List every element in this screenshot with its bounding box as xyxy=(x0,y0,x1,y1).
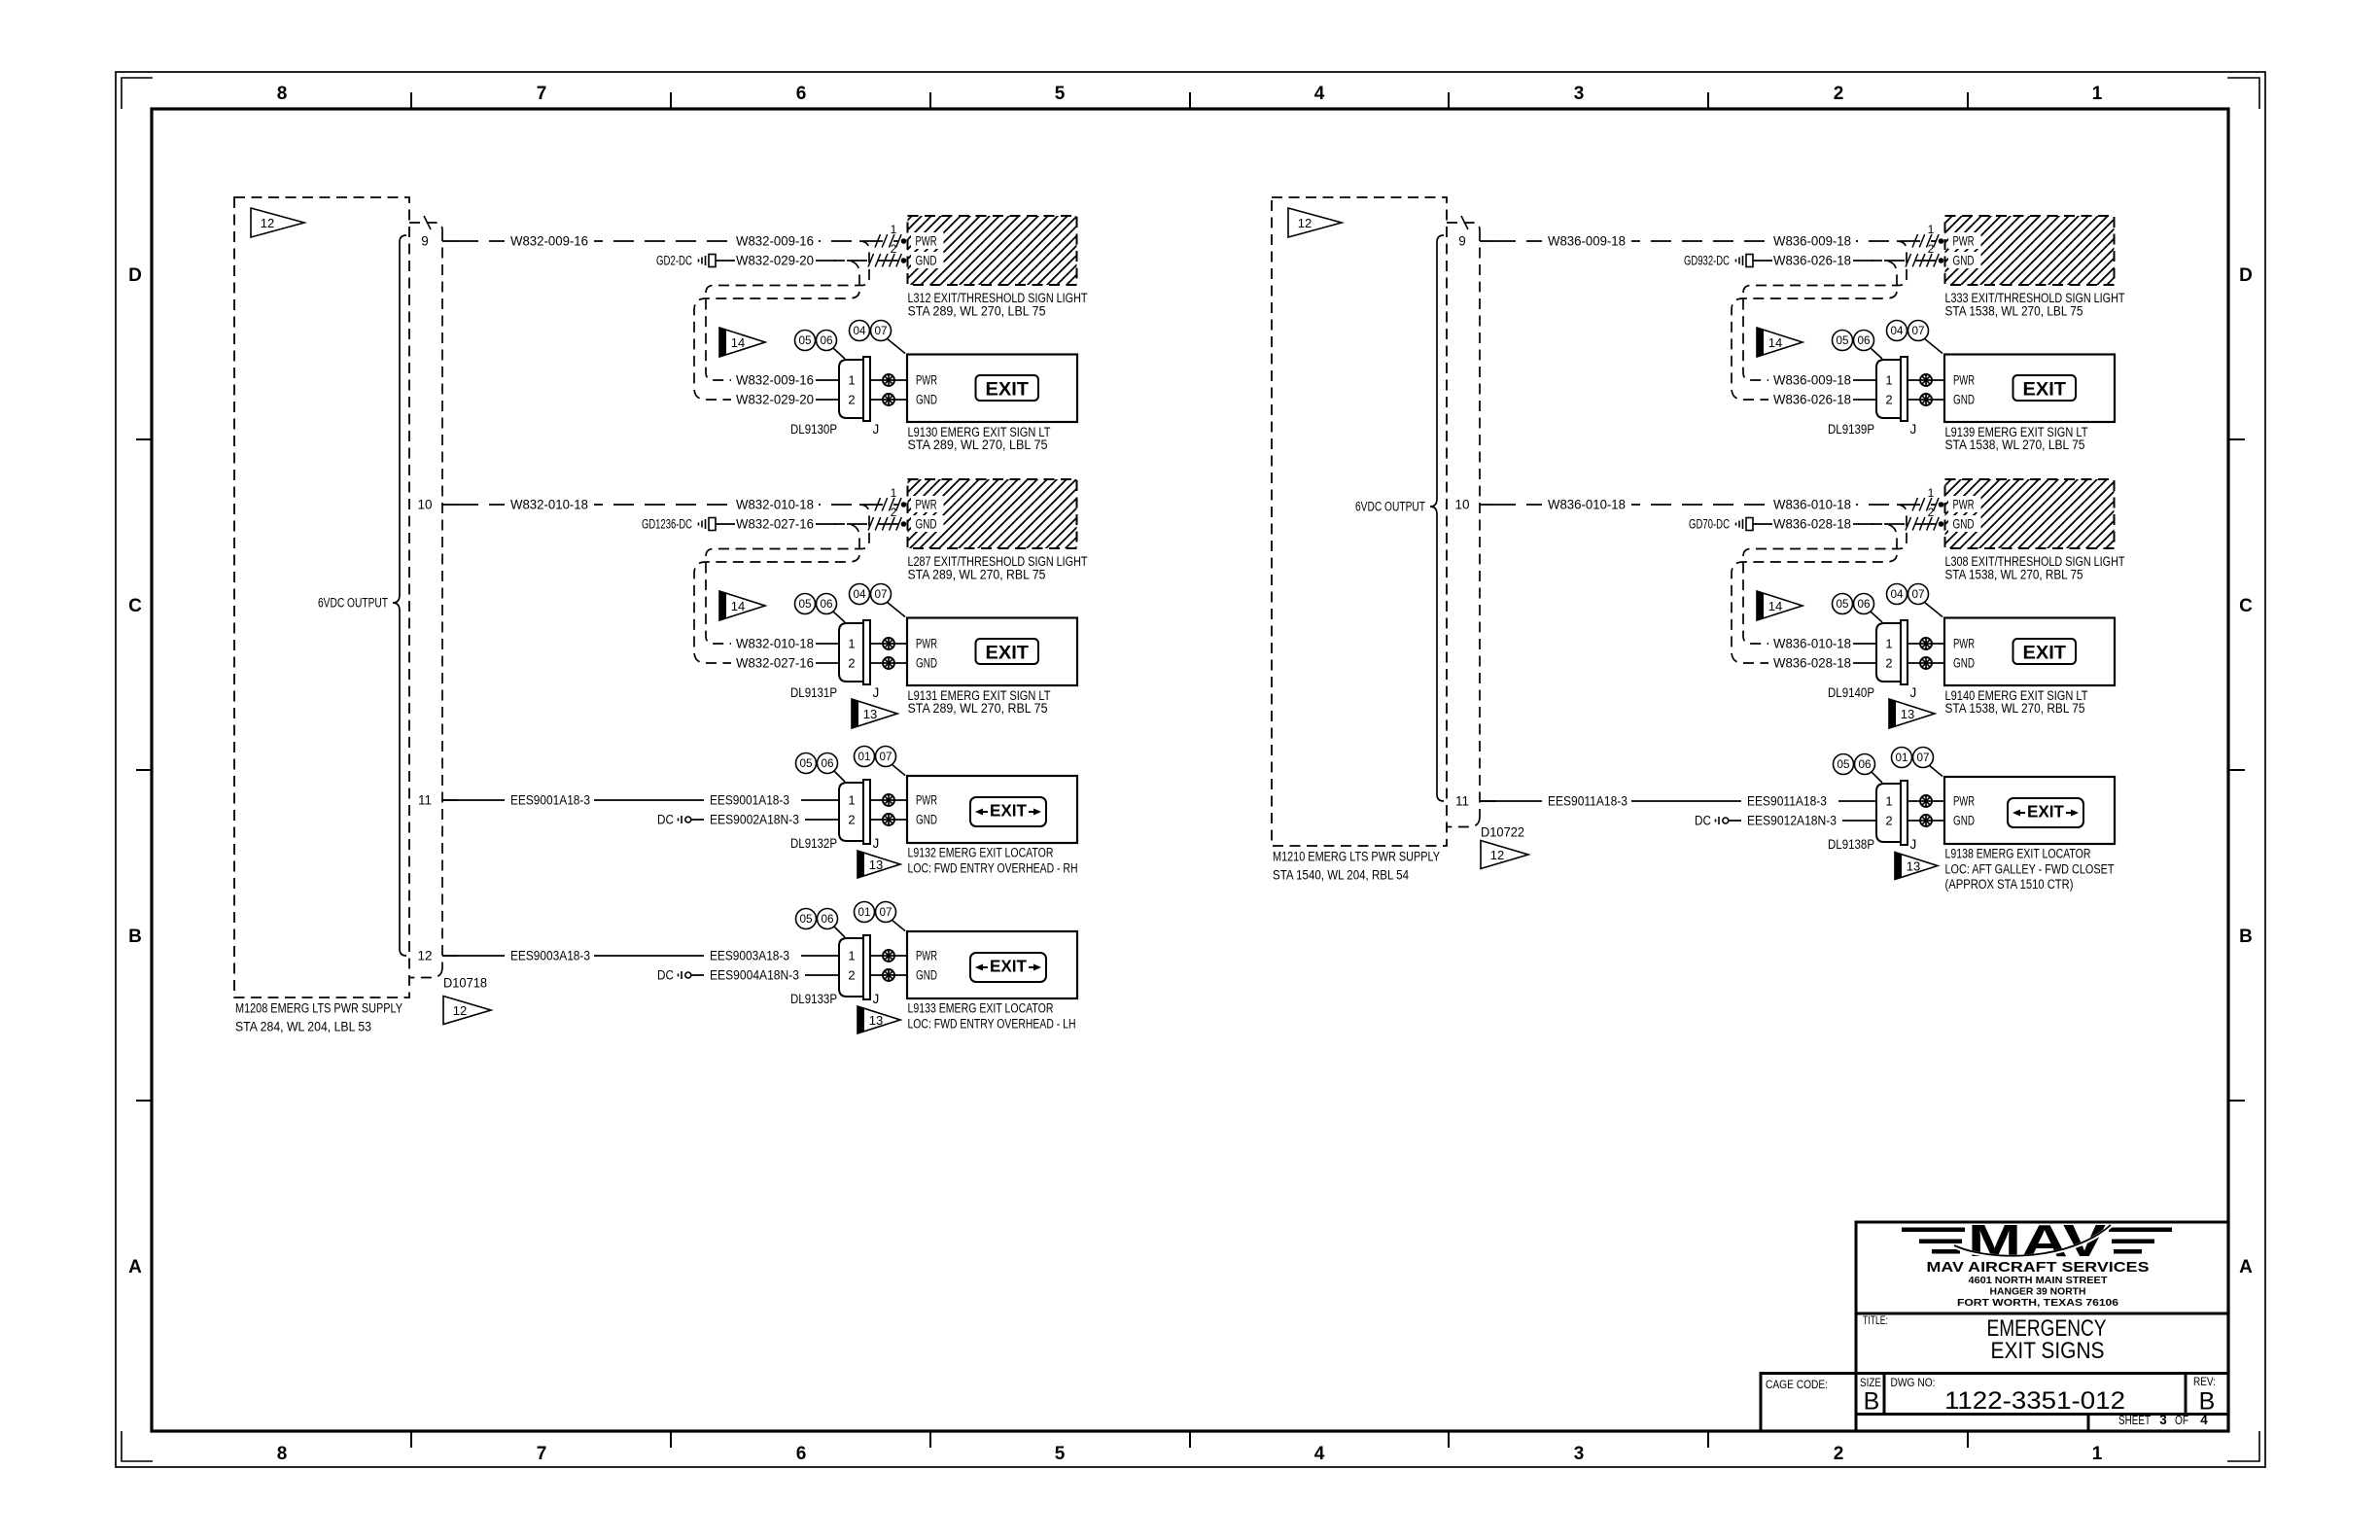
svg-text:1: 1 xyxy=(848,793,855,808)
wire W836-009-18 into plug pin 1 xyxy=(1768,371,1856,389)
svg-text:14: 14 xyxy=(731,599,745,613)
svg-text:W836-026-18: W836-026-18 xyxy=(1773,393,1851,407)
svg-text:STA 1538, WL 270, LBL 75: STA 1538, WL 270, LBL 75 xyxy=(1945,437,2085,452)
svg-text:05: 05 xyxy=(799,599,812,611)
svg-text:EXIT: EXIT xyxy=(986,380,1030,401)
svg-text:W832-009-16: W832-009-16 xyxy=(510,234,588,249)
L9140 EMERG EXIT SIGN LT box xyxy=(1944,618,2115,686)
svg-text:14: 14 xyxy=(1768,599,1782,613)
svg-text:J: J xyxy=(873,992,880,1006)
flag note 14 xyxy=(1757,328,1802,357)
svg-text:W832-010-18: W832-010-18 xyxy=(736,498,814,512)
svg-text:05: 05 xyxy=(1837,599,1849,611)
svg-text:6: 6 xyxy=(796,1444,807,1464)
svg-text:GND: GND xyxy=(916,656,937,671)
svg-text:STA 289, WL 270, LBL 75: STA 289, WL 270, LBL 75 xyxy=(908,437,1048,452)
svg-text:EES9001A18-3: EES9001A18-3 xyxy=(710,793,789,808)
circled callouts 05 06 04 07 xyxy=(833,348,845,359)
svg-text:1: 1 xyxy=(848,637,855,651)
svg-text:DWG NO:: DWG NO: xyxy=(1891,1376,1936,1389)
svg-text:06: 06 xyxy=(1858,335,1871,347)
circled callouts 05 06 04 07 xyxy=(1871,612,1882,622)
svg-text:05: 05 xyxy=(1837,335,1849,347)
wire W832-009-16 (pin to threshold light) xyxy=(458,240,898,242)
svg-text:4: 4 xyxy=(2200,1413,2208,1427)
pin 10 xyxy=(442,504,458,506)
wire bundle marks pins 1,2 xyxy=(1912,234,1939,248)
flag note 12 (inside supply) xyxy=(1288,208,1342,237)
L9130 EMERG EXIT SIGN LT box xyxy=(907,355,1077,423)
svg-text:05: 05 xyxy=(800,914,813,926)
L9132 EMERG EXIT LOCATOR box xyxy=(907,776,1077,843)
svg-text:2: 2 xyxy=(1928,242,1935,256)
svg-text:B: B xyxy=(2199,1388,2216,1416)
L9139 EMERG EXIT SIGN LT box xyxy=(1944,355,2115,423)
svg-text:DL9131P: DL9131P xyxy=(790,685,837,700)
svg-text:1: 1 xyxy=(2092,84,2103,104)
svg-text:DL9133P: DL9133P xyxy=(790,992,837,1006)
circled callouts 05 06 01 07 xyxy=(1872,772,1882,783)
svg-text:REV:: REV: xyxy=(2193,1375,2216,1388)
svg-text:STA 289, WL 270, RBL 75: STA 289, WL 270, RBL 75 xyxy=(908,701,1048,716)
pin 9 xyxy=(1480,240,1495,242)
svg-text:07: 07 xyxy=(1912,326,1925,337)
wire W832-010-18 into plug pin 1 xyxy=(731,635,819,652)
svg-text:07: 07 xyxy=(875,589,888,601)
svg-text:GD70-DC: GD70-DC xyxy=(1689,517,1730,532)
svg-text:PWR: PWR xyxy=(1953,234,1975,249)
svg-text:C: C xyxy=(2239,596,2253,616)
svg-text:M1208 EMERG LTS PWR SUPPLY: M1208 EMERG LTS PWR SUPPLY xyxy=(235,1001,402,1016)
svg-text:LOC: AFT GALLEY - FWD CLOSET: LOC: AFT GALLEY - FWD CLOSET xyxy=(1945,861,2115,876)
svg-text:4: 4 xyxy=(1314,1444,1325,1464)
svg-text:W836-009-18: W836-009-18 xyxy=(1548,234,1626,249)
svg-text:GND: GND xyxy=(1953,393,1975,407)
svg-text:EES9003A18-3: EES9003A18-3 xyxy=(510,949,590,963)
svg-text:07: 07 xyxy=(875,326,888,337)
svg-text:EES9004A18N-3: EES9004A18N-3 xyxy=(710,968,799,983)
svg-text:B: B xyxy=(2239,927,2253,947)
svg-text:J: J xyxy=(873,836,880,851)
svg-text:PWR: PWR xyxy=(916,949,937,963)
svg-text:GND: GND xyxy=(916,968,937,983)
flag note 12 (inside supply) xyxy=(251,208,304,237)
svg-text:GND: GND xyxy=(916,393,937,407)
svg-text:GND: GND xyxy=(916,517,937,532)
svg-text:1: 1 xyxy=(1885,794,1892,809)
svg-text:GD932-DC: GD932-DC xyxy=(1684,254,1730,268)
svg-text:04: 04 xyxy=(1891,589,1905,601)
svg-text:EES9001A18-3: EES9001A18-3 xyxy=(510,793,590,808)
svg-text:13: 13 xyxy=(1907,858,1920,873)
svg-text:05: 05 xyxy=(1837,759,1850,771)
power supply M1210 (dashed box) xyxy=(1272,197,1447,846)
L9133 EMERG EXIT LOCATOR box xyxy=(907,931,1077,998)
svg-text:PWR: PWR xyxy=(1953,794,1975,809)
svg-text:(APPROX STA 1510 CTR): (APPROX STA 1510 CTR) xyxy=(1945,877,2074,892)
svg-text:STA 1538, WL 270, LBL 75: STA 1538, WL 270, LBL 75 xyxy=(1945,304,2083,319)
connector plug DL9139P xyxy=(1876,357,1907,421)
svg-text:LOC: FWD ENTRY OVERHEAD - LH: LOC: FWD ENTRY OVERHEAD - LH xyxy=(908,1016,1076,1031)
svg-text:D: D xyxy=(2239,265,2253,286)
connector plug DL9138P xyxy=(1876,781,1907,845)
svg-text:8: 8 xyxy=(277,1444,288,1464)
svg-text:1: 1 xyxy=(848,949,855,963)
wire W836-026-18 (ground to threshold light) xyxy=(1753,260,1772,262)
wire W832-027-16 (ground to threshold light) xyxy=(716,523,735,525)
svg-text:3: 3 xyxy=(1574,84,1585,104)
wire EES9012A18N-3 (ground to locator) xyxy=(1729,820,1876,822)
flag note 12 (D10722) xyxy=(1481,841,1528,869)
svg-text:10: 10 xyxy=(417,498,432,512)
wire W832-010-18 (pin to threshold light) xyxy=(458,504,898,506)
svg-text:DL9140P: DL9140P xyxy=(1828,685,1874,700)
svg-text:DC: DC xyxy=(657,968,674,983)
svg-text:W836-026-18: W836-026-18 xyxy=(1773,254,1851,268)
svg-text:EXIT: EXIT xyxy=(2027,802,2064,822)
lamp contacts xyxy=(870,379,907,381)
lamp contacts xyxy=(870,955,907,957)
wire W836-028-18 branch loop to exit sign xyxy=(1732,524,1897,663)
svg-text:11: 11 xyxy=(1455,794,1469,809)
flag note 13 xyxy=(852,699,897,728)
svg-text:2: 2 xyxy=(1834,84,1844,104)
svg-text:PWR: PWR xyxy=(1953,637,1975,651)
svg-text:3: 3 xyxy=(2159,1413,2167,1427)
svg-text:2: 2 xyxy=(848,813,855,827)
svg-text:D10718: D10718 xyxy=(443,976,487,991)
wire W836-010-18 into plug pin 1 xyxy=(1768,635,1856,652)
svg-text:STA 1538, WL 270, RBL 75: STA 1538, WL 270, RBL 75 xyxy=(1945,568,2083,582)
wire W832-029-20 into plug pin 2 xyxy=(731,391,819,408)
flag note 14 xyxy=(719,591,765,620)
svg-text:12: 12 xyxy=(417,949,432,963)
connector plug DL9133P xyxy=(839,935,870,999)
wire EES9011A18-3 (pin to locator) xyxy=(1480,800,1876,802)
svg-text:GND: GND xyxy=(916,254,937,268)
pin 12 xyxy=(442,955,458,957)
lamp contacts xyxy=(1907,379,1944,381)
L287 EXIT/THRESHOLD SIGN LIGHT (hatched) xyxy=(908,479,1077,548)
svg-text:B: B xyxy=(1864,1388,1880,1416)
wire W832-009-16 into plug pin 1 xyxy=(731,371,819,389)
svg-text:04: 04 xyxy=(1891,326,1905,337)
wire bundle marks pins 1,2 xyxy=(1912,498,1939,511)
lamp contacts xyxy=(870,799,907,801)
svg-text:DL9130P: DL9130P xyxy=(790,422,837,437)
svg-text:01: 01 xyxy=(1896,752,1908,764)
svg-text:DL9132P: DL9132P xyxy=(790,836,837,851)
svg-text:B: B xyxy=(128,927,142,947)
svg-text:EXIT: EXIT xyxy=(2023,644,2067,664)
connector (supply output, dashed) xyxy=(409,223,442,978)
svg-text:06: 06 xyxy=(1858,599,1871,611)
circled callouts 05 06 04 07 xyxy=(833,612,845,622)
svg-text:W836-028-18: W836-028-18 xyxy=(1773,517,1851,532)
svg-text:06: 06 xyxy=(821,335,833,347)
EXIT legend with arrows xyxy=(2008,798,2083,827)
svg-text:PWR: PWR xyxy=(1953,373,1975,388)
svg-text:2: 2 xyxy=(848,968,855,983)
svg-text:5: 5 xyxy=(1055,84,1066,104)
svg-text:6VDC OUTPUT: 6VDC OUTPUT xyxy=(1355,500,1425,514)
svg-text:J: J xyxy=(1910,685,1917,700)
svg-text:PWR: PWR xyxy=(1953,498,1975,512)
svg-text:EES9011A18-3: EES9011A18-3 xyxy=(1548,794,1627,809)
wire W836-009-18 (pin to threshold light) xyxy=(1495,240,1936,242)
svg-text:1: 1 xyxy=(2092,1444,2103,1464)
svg-text:01: 01 xyxy=(858,907,871,919)
svg-text:GD2-DC: GD2-DC xyxy=(656,254,692,268)
svg-text:1: 1 xyxy=(1928,486,1935,500)
circled callouts 05 06 01 07 xyxy=(834,771,845,782)
svg-text:9: 9 xyxy=(421,234,429,249)
svg-text:05: 05 xyxy=(799,335,812,347)
svg-text:STA 1538, WL 270, RBL 75: STA 1538, WL 270, RBL 75 xyxy=(1945,701,2085,716)
svg-text:4: 4 xyxy=(1314,84,1325,104)
svg-text:1: 1 xyxy=(1928,223,1935,236)
svg-text:J: J xyxy=(1910,837,1917,852)
svg-text:W836-009-18: W836-009-18 xyxy=(1773,373,1851,388)
brace 6VDC OUTPUT xyxy=(1430,235,1444,801)
L308 EXIT/THRESHOLD SIGN LIGHT (hatched) xyxy=(1945,479,2115,548)
svg-text:EXIT: EXIT xyxy=(986,644,1030,664)
svg-text:14: 14 xyxy=(731,335,745,350)
svg-text:L9132 EMERG EXIT LOCATOR: L9132 EMERG EXIT LOCATOR xyxy=(908,846,1054,860)
flag note 13 xyxy=(1889,699,1935,728)
wire EES9002A18N-3 (ground to locator) xyxy=(691,819,839,821)
svg-text:EES9003A18-3: EES9003A18-3 xyxy=(710,949,789,963)
wire W836-028-18 (ground to threshold light) xyxy=(1753,523,1772,525)
svg-text:07: 07 xyxy=(880,907,892,919)
svg-text:2: 2 xyxy=(848,393,855,407)
svg-text:1: 1 xyxy=(891,486,897,500)
brace 6VDC OUTPUT xyxy=(393,235,406,956)
wire W836-026-18 branch loop to exit sign xyxy=(1732,261,1897,400)
wire EES9003A18-3 (pin to locator) xyxy=(442,955,839,957)
svg-text:L9138 EMERG EXIT LOCATOR: L9138 EMERG EXIT LOCATOR xyxy=(1945,847,2091,861)
pin 11 xyxy=(1480,800,1495,802)
svg-text:W836-028-18: W836-028-18 xyxy=(1773,656,1851,671)
svg-text:2: 2 xyxy=(848,656,855,671)
inner border frame xyxy=(152,109,2228,1431)
EXIT legend xyxy=(976,375,1039,401)
lamp contacts xyxy=(870,643,907,645)
svg-text:GND: GND xyxy=(1953,814,1975,828)
svg-text:CAGE CODE:: CAGE CODE: xyxy=(1766,1378,1828,1391)
svg-text:13: 13 xyxy=(869,857,883,872)
wire W832-027-16 into plug pin 2 xyxy=(731,654,819,672)
svg-text:12: 12 xyxy=(453,1003,467,1018)
svg-text:1122-3351-012: 1122-3351-012 xyxy=(1944,1387,2125,1415)
svg-text:J: J xyxy=(873,685,880,700)
svg-text:12: 12 xyxy=(1490,848,1504,862)
svg-text:PWR: PWR xyxy=(916,637,937,651)
svg-text:PWR: PWR xyxy=(916,793,937,808)
wire EES9001A18-3 (pin to locator) xyxy=(442,799,839,801)
svg-text:EES9011A18-3: EES9011A18-3 xyxy=(1747,794,1827,809)
svg-text:7: 7 xyxy=(537,1444,547,1464)
svg-text:EES9002A18N-3: EES9002A18N-3 xyxy=(710,813,799,827)
connector plug DL9140P xyxy=(1876,620,1907,684)
circled callouts 05 06 04 07 xyxy=(1871,348,1882,359)
svg-text:TITLE:: TITLE: xyxy=(1863,1313,1888,1327)
connector (supply output, dashed) xyxy=(1447,223,1480,827)
svg-text:EES9012A18N-3: EES9012A18N-3 xyxy=(1747,814,1837,828)
svg-text:01: 01 xyxy=(858,752,871,763)
svg-text:1: 1 xyxy=(891,223,897,236)
svg-text:L9133 EMERG EXIT LOCATOR: L9133 EMERG EXIT LOCATOR xyxy=(908,1001,1054,1016)
svg-text:2: 2 xyxy=(1885,393,1892,407)
svg-text:GND: GND xyxy=(1953,517,1975,532)
connector plug DL9132P xyxy=(839,780,870,844)
svg-text:2: 2 xyxy=(891,506,897,519)
svg-text:A: A xyxy=(128,1257,142,1277)
svg-text:PWR: PWR xyxy=(916,498,937,512)
svg-text:07: 07 xyxy=(880,752,892,763)
wire W832-029-20 (ground to threshold light) xyxy=(716,260,735,262)
svg-text:GND: GND xyxy=(1953,656,1975,671)
svg-text:DC: DC xyxy=(657,813,674,827)
svg-text:STA 1540, WL 204, RBL 54: STA 1540, WL 204, RBL 54 xyxy=(1273,868,1409,883)
svg-text:GND: GND xyxy=(916,813,937,827)
logo swoosh xyxy=(1954,1226,2111,1257)
svg-text:GND: GND xyxy=(1953,254,1975,268)
MAV logo xyxy=(1902,1215,2172,1266)
svg-text:D: D xyxy=(128,265,142,286)
svg-text:STA 289, WL 270, RBL 75: STA 289, WL 270, RBL 75 xyxy=(908,568,1046,582)
svg-text:4601 NORTH MAIN STREET: 4601 NORTH MAIN STREET xyxy=(1969,1275,2109,1286)
flag note 13 xyxy=(1895,853,1938,880)
power supply M1208 (dashed box) xyxy=(234,197,409,997)
svg-text:2: 2 xyxy=(1885,656,1892,671)
svg-text:W836-010-18: W836-010-18 xyxy=(1773,637,1851,651)
L9138 EMERG EXIT LOCATOR box xyxy=(1944,777,2115,844)
zone tick marks xyxy=(136,92,2245,1448)
svg-text:MAV AIRCRAFT SERVICES: MAV AIRCRAFT SERVICES xyxy=(1927,1259,2150,1276)
svg-text:OF: OF xyxy=(2175,1414,2188,1427)
svg-text:9: 9 xyxy=(1458,234,1466,249)
svg-text:5: 5 xyxy=(1055,1444,1066,1464)
EXIT legend xyxy=(976,639,1039,664)
svg-text:1: 1 xyxy=(1885,373,1892,388)
EXIT legend with arrows xyxy=(970,797,1046,826)
svg-text:04: 04 xyxy=(854,589,867,601)
svg-text:W832-029-20: W832-029-20 xyxy=(736,254,814,268)
svg-text:11: 11 xyxy=(418,793,432,808)
wire W832-027-16 branch loop to exit sign xyxy=(694,524,859,663)
wire bundle marks pins 1,2 xyxy=(875,234,901,248)
svg-text:FORT WORTH, TEXAS 76106: FORT WORTH, TEXAS 76106 xyxy=(1957,1297,2118,1309)
svg-text:W832-029-20: W832-029-20 xyxy=(736,393,814,407)
svg-text:2: 2 xyxy=(1928,506,1935,519)
wire W832-010-18 branch loop to exit sign xyxy=(706,505,869,644)
L9131 EMERG EXIT SIGN LT box xyxy=(907,618,1077,686)
svg-text:GD1236-DC: GD1236-DC xyxy=(642,517,692,532)
svg-text:12: 12 xyxy=(1298,216,1312,230)
connector plug DL9130P xyxy=(839,357,870,421)
svg-text:EXIT: EXIT xyxy=(990,801,1027,821)
svg-text:D10722: D10722 xyxy=(1481,825,1524,840)
svg-text:2: 2 xyxy=(891,242,897,256)
svg-text:W836-009-18: W836-009-18 xyxy=(1773,234,1851,249)
svg-text:W836-010-18: W836-010-18 xyxy=(1548,498,1626,512)
svg-text:STA 284, WL 204, LBL 53: STA 284, WL 204, LBL 53 xyxy=(235,1020,371,1034)
svg-text:6VDC OUTPUT: 6VDC OUTPUT xyxy=(318,596,388,611)
svg-text:07: 07 xyxy=(1917,752,1930,764)
svg-text:07: 07 xyxy=(1912,589,1925,601)
circled callouts 05 06 01 07 xyxy=(834,927,845,937)
svg-text:1: 1 xyxy=(848,373,855,388)
svg-text:EXIT: EXIT xyxy=(990,957,1027,976)
svg-text:W836-010-18: W836-010-18 xyxy=(1773,498,1851,512)
svg-text:EXIT SIGNS: EXIT SIGNS xyxy=(1991,1338,2105,1364)
svg-text:6: 6 xyxy=(796,84,807,104)
L312 EXIT/THRESHOLD SIGN LIGHT (hatched) xyxy=(908,216,1077,285)
svg-text:HANGER 39 NORTH: HANGER 39 NORTH xyxy=(1990,1286,2086,1298)
flag note 14 xyxy=(719,328,765,357)
svg-text:LOC: FWD ENTRY OVERHEAD - RH: LOC: FWD ENTRY OVERHEAD - RH xyxy=(908,860,1078,875)
wire W836-010-18 (pin to threshold light) xyxy=(1495,504,1936,506)
wire W832-029-20 branch loop to exit sign xyxy=(694,261,859,400)
svg-text:DL9138P: DL9138P xyxy=(1828,837,1874,852)
svg-text:13: 13 xyxy=(1901,707,1914,721)
EXIT legend xyxy=(2013,375,2077,401)
wire EES9004A18N-3 (ground to locator) xyxy=(691,974,839,976)
svg-text:06: 06 xyxy=(1859,759,1872,771)
pin 11 xyxy=(442,799,458,801)
svg-text:EXIT: EXIT xyxy=(2023,380,2067,401)
svg-text:06: 06 xyxy=(822,758,834,770)
svg-text:PWR: PWR xyxy=(916,373,937,388)
wire W836-010-18 branch loop to exit sign xyxy=(1743,505,1907,644)
svg-text:7: 7 xyxy=(537,84,547,104)
svg-text:PWR: PWR xyxy=(916,234,937,249)
EXIT legend with arrows xyxy=(970,953,1046,982)
svg-text:2: 2 xyxy=(1834,1444,1844,1464)
EXIT legend xyxy=(2013,639,2077,664)
svg-text:A: A xyxy=(2239,1257,2253,1277)
svg-text:J: J xyxy=(873,422,880,437)
svg-text:1: 1 xyxy=(1885,637,1892,651)
svg-text:W832-010-18: W832-010-18 xyxy=(736,637,814,651)
wire W836-009-18 branch loop to exit sign xyxy=(1743,241,1907,380)
svg-text:DC: DC xyxy=(1695,814,1711,828)
svg-text:W832-027-16: W832-027-16 xyxy=(736,656,814,671)
lamp contacts xyxy=(1907,643,1944,645)
svg-text:W832-009-16: W832-009-16 xyxy=(736,373,814,388)
svg-text:06: 06 xyxy=(821,599,833,611)
svg-text:8: 8 xyxy=(277,84,288,104)
svg-text:SHEET: SHEET xyxy=(2118,1414,2151,1427)
svg-text:J: J xyxy=(1910,422,1917,437)
svg-text:DL9139P: DL9139P xyxy=(1828,422,1874,437)
pin 9 xyxy=(442,240,458,242)
wire W832-009-16 branch loop to exit sign xyxy=(706,241,869,380)
flag note 12 (D10718) xyxy=(443,997,491,1025)
wire W836-026-18 into plug pin 2 xyxy=(1768,391,1856,408)
svg-text:06: 06 xyxy=(822,914,834,926)
svg-text:W832-027-16: W832-027-16 xyxy=(736,517,814,532)
svg-text:C: C xyxy=(128,596,142,616)
lamp contacts xyxy=(1907,800,1944,802)
svg-text:14: 14 xyxy=(1768,335,1782,350)
flag note 14 xyxy=(1757,591,1802,620)
wire bundle marks pins 1,2 xyxy=(875,498,901,511)
svg-text:13: 13 xyxy=(869,1013,883,1028)
svg-text:05: 05 xyxy=(800,758,813,770)
svg-text:2: 2 xyxy=(1885,814,1892,828)
